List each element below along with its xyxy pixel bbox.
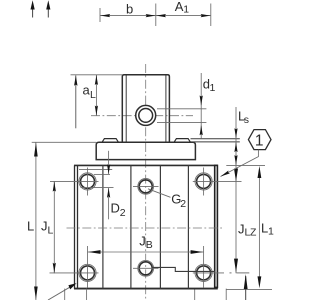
svg-text:s: s xyxy=(244,114,249,126)
bottom edge extension right xyxy=(226,288,272,290)
extension lines below bottom edge xyxy=(65,289,227,300)
dimension L left xyxy=(35,142,37,300)
bolt hole top-left xyxy=(50,168,99,196)
block side view xyxy=(122,75,169,143)
seal band front view dark bar xyxy=(215,165,218,287)
bore inner circle xyxy=(139,109,153,123)
wire cropped dimension arrow bottom-right xyxy=(245,276,247,300)
vertical centerline xyxy=(145,64,147,300)
lube hole G2 top xyxy=(133,179,159,195)
top edge extension right xyxy=(226,164,265,166)
leader callout bottom-left xyxy=(48,286,72,300)
svg-text:L: L xyxy=(48,225,54,237)
base plate side view xyxy=(96,142,195,159)
horizontal mid centerline front view xyxy=(67,227,225,229)
svg-text:L: L xyxy=(90,89,96,101)
dimension L1 xyxy=(258,170,260,285)
bolt hole top-right xyxy=(193,168,242,196)
dimension d1 xyxy=(200,73,202,139)
svg-text:1: 1 xyxy=(255,133,264,150)
bolt hole bottom-right xyxy=(193,259,250,288)
panel line 2 xyxy=(130,165,132,288)
svg-text:J: J xyxy=(139,233,146,248)
dimension D2 xyxy=(79,151,114,220)
lug left xyxy=(102,139,119,143)
dimension b xyxy=(100,4,156,27)
svg-text:1: 1 xyxy=(210,82,216,94)
panel line 4 xyxy=(187,165,189,288)
wire cropped dimension arrow top-left B xyxy=(47,8,49,18)
wire cropped dimension arrow top-left A xyxy=(32,8,34,18)
base top extension line left xyxy=(32,141,97,143)
lube hole G2 bottom xyxy=(133,260,159,276)
front view bottom edge xyxy=(74,288,218,290)
svg-text:1: 1 xyxy=(183,4,189,16)
slot line left inner xyxy=(77,165,79,288)
dimension A1 xyxy=(156,4,211,27)
d1 tangent line upper xyxy=(157,108,206,110)
panel line 3 xyxy=(159,165,161,288)
svg-text:L: L xyxy=(27,219,34,234)
dimension aL xyxy=(71,75,123,116)
d1 tangent line lower xyxy=(157,121,206,123)
front view top edge xyxy=(74,164,218,166)
panel line 1 xyxy=(102,165,104,288)
lug right xyxy=(174,139,191,143)
dimension Ls and JLZ shared line xyxy=(235,107,237,273)
block chamfer line right xyxy=(165,76,167,143)
slot line left outer xyxy=(74,165,76,288)
svg-text:B: B xyxy=(146,239,153,251)
svg-text:Z: Z xyxy=(250,227,257,239)
horizontal centerline bore xyxy=(91,115,193,117)
svg-text:2: 2 xyxy=(180,198,186,210)
wire tall arrow to block top xyxy=(75,75,77,128)
dimension JL xyxy=(53,181,55,273)
bolt hole bottom-left xyxy=(50,259,99,288)
hexagon callout 1 xyxy=(248,130,271,150)
leader G2 xyxy=(148,189,171,198)
svg-text:2: 2 xyxy=(120,207,126,219)
block chamfer line left xyxy=(125,76,127,143)
seal band step line bottom xyxy=(153,267,215,271)
svg-text:1: 1 xyxy=(268,226,274,238)
seal band protruding right xyxy=(191,139,240,142)
leader hexagon to band xyxy=(221,150,259,177)
bore outer circle xyxy=(136,105,156,125)
svg-text:b: b xyxy=(126,2,133,17)
dimension JB xyxy=(88,246,204,259)
svg-text:D: D xyxy=(111,201,120,216)
